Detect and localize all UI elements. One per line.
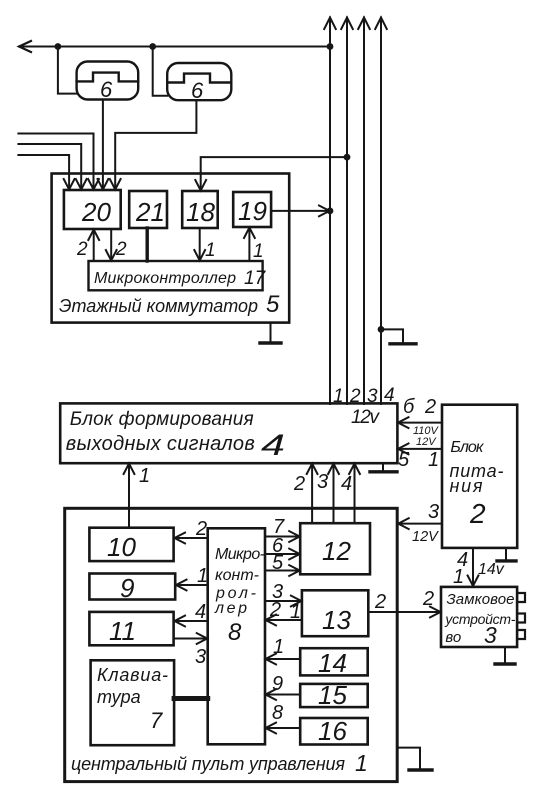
svg-text:11: 11 — [109, 616, 136, 646]
wire power to lock device (arrow down) labels 4 1 14v — [453, 548, 505, 588]
svg-text:19: 19 — [238, 196, 267, 226]
wire MK8 to 12 line 7 (arrow right) — [265, 516, 300, 542]
block 20 — [64, 190, 121, 229]
svg-text:1: 1 — [139, 465, 150, 487]
block 19 — [233, 192, 271, 227]
svg-text:6: 6 — [191, 78, 204, 103]
ground from block 1 right edge — [397, 748, 432, 770]
svg-text:лер: лер — [214, 600, 247, 617]
svg-text:3: 3 — [428, 501, 439, 523]
block 16 — [300, 716, 368, 746]
svg-text:2: 2 — [424, 396, 436, 418]
wire block 11 to MK8 (arrow right) label 3 — [174, 633, 208, 668]
svg-text:Микроконтроллер: Микроконтроллер — [94, 270, 236, 287]
wire block 21 to MK17 (thick) — [145, 228, 148, 261]
wire from dot B to right intercom — [153, 47, 168, 96]
wire top bus with left arrowhead — [19, 41, 330, 52]
wire 14 to MK8 (arrow left) label 1 — [266, 636, 301, 664]
node junction dot A — [55, 43, 62, 50]
wire input line C — [18, 155, 74, 190]
wire input line A — [18, 134, 99, 190]
node junction dot B — [149, 43, 156, 50]
wire block 13 to lock device (arrow right) labels 2 2 — [368, 588, 440, 617]
wire power 1 to block 4 (arrow left) labels 5 1 — [398, 444, 442, 472]
svg-text:тура: тура — [97, 687, 141, 707]
svg-text:14: 14 — [318, 648, 347, 678]
svg-text:Клавиа-: Клавиа- — [97, 665, 168, 685]
label Этажный коммутатор 5 — [59, 291, 280, 318]
svg-text:1: 1 — [453, 566, 464, 588]
intercom handset unit 6 (left) — [77, 62, 139, 103]
svg-text:2: 2 — [293, 473, 305, 495]
trunk line 2 (arrow up) — [341, 18, 353, 405]
svg-text:10: 10 — [107, 532, 136, 562]
svg-text:Этажный коммутатор: Этажный коммутатор — [59, 296, 258, 316]
block 21 — [129, 191, 167, 228]
ground below block 5 — [260, 323, 281, 343]
block 18 — [182, 191, 218, 228]
svg-text:8: 8 — [228, 619, 242, 646]
svg-text:1: 1 — [290, 601, 301, 623]
wire block 19 to trunk line 1 (arrow right) — [271, 206, 333, 217]
block 10 — [89, 528, 173, 562]
labels 1 2 3 4 above block 4 — [333, 385, 395, 407]
svg-text:1: 1 — [355, 750, 368, 776]
svg-text:3: 3 — [484, 622, 497, 648]
ground below lock device — [495, 647, 515, 664]
svg-text:конт-: конт- — [215, 567, 259, 584]
svg-text:12: 12 — [322, 536, 351, 566]
svg-text:5: 5 — [272, 552, 284, 574]
wire left intercom to block 20 (arrow down) — [98, 100, 109, 190]
microcontroller 8 box — [208, 528, 265, 744]
svg-text:2: 2 — [115, 239, 127, 260]
wire block 1 to block 4 (arrow up) label 1 — [124, 464, 151, 528]
wire 12 to block 4 line 2 (arrow up) — [293, 464, 318, 524]
wire MK8 to block 10 (arrow left) label 2 — [175, 518, 208, 543]
svg-text:устройст-: устройст- — [444, 611, 515, 627]
block 12 — [300, 523, 370, 574]
ground from trunk line 4 — [378, 326, 416, 344]
svg-text:4: 4 — [195, 601, 206, 623]
wire right intercom to block 20 (arrow down) — [110, 100, 197, 189]
svg-text:16: 16 — [318, 716, 347, 746]
svg-text:3: 3 — [195, 646, 206, 668]
wire MK17 to block 19 (arrow up) label 1 — [244, 228, 264, 263]
svg-text:5: 5 — [398, 449, 410, 471]
wire power 2 to block 4 (110V arrow left) labels б 2 — [398, 396, 442, 448]
svg-text:12v: 12v — [351, 407, 381, 428]
svg-text:1: 1 — [273, 636, 284, 658]
ground below power block 2 — [497, 548, 516, 561]
wire MK8 to block 11 (arrow left) label 4 — [175, 601, 208, 626]
wire 16 to MK8 (arrow left) label 8 — [266, 702, 301, 733]
block 13 — [302, 590, 368, 636]
svg-text:2: 2 — [195, 518, 207, 540]
trunk line 1 (arrow up) — [324, 18, 336, 405]
wire MK8 to 13 line 3 (arrow right) — [265, 581, 301, 606]
svg-text:2: 2 — [269, 599, 281, 621]
wire block 20 to MK17 (arrow down) label 2 — [106, 229, 127, 261]
wire MK8 to block 9 (arrow left) label 1 — [176, 565, 208, 590]
svg-text:20: 20 — [81, 197, 111, 227]
node junction dot on trunk line 1 (top) — [327, 43, 334, 50]
svg-text:12V: 12V — [416, 436, 437, 448]
wire 15 to MK8 (arrow left) label 9 — [266, 673, 301, 700]
svg-text:во: во — [445, 629, 461, 646]
svg-text:2: 2 — [76, 239, 88, 260]
intercom handset unit 6 (right) — [167, 63, 231, 103]
block 15 — [300, 680, 368, 710]
svg-text:центральный пульт управления: центральный пульт управления — [71, 754, 345, 774]
svg-text:12V: 12V — [412, 529, 439, 545]
svg-text:4: 4 — [261, 429, 285, 462]
svg-text:9: 9 — [120, 573, 134, 603]
microcontroller 17 box — [89, 261, 267, 290]
wire block 18 to MK17 (arrow down) label 1 — [194, 228, 215, 261]
ground below block 4 — [370, 463, 397, 472]
svg-text:2: 2 — [374, 591, 386, 613]
svg-text:2: 2 — [422, 588, 434, 610]
svg-text:ния: ния — [450, 476, 483, 496]
block 14 — [300, 648, 368, 678]
svg-text:б: б — [403, 396, 415, 418]
svg-text:2: 2 — [469, 498, 486, 529]
svg-text:Замковое: Замковое — [447, 591, 515, 608]
svg-text:5: 5 — [266, 291, 280, 318]
svg-text:14v: 14v — [478, 561, 505, 578]
central control console block 1 box — [65, 508, 398, 781]
block 11 — [89, 612, 173, 646]
svg-text:выходных сигналов: выходных сигналов — [66, 433, 255, 455]
svg-text:7: 7 — [150, 708, 163, 733]
trunk line 4 (arrow up) — [375, 18, 387, 405]
svg-text:21: 21 — [135, 197, 165, 227]
block 9 — [89, 573, 175, 603]
wire MK8 to 12 line 6 (arrow right) — [265, 535, 300, 559]
wire from dot A to left intercom — [58, 47, 77, 94]
svg-text:1: 1 — [205, 240, 216, 261]
wire trunk line 2 to block 18 (arrow down) — [195, 154, 350, 191]
wire MK17 to block 20 (arrow up) label 2 — [76, 230, 99, 262]
svg-text:Блок: Блок — [450, 439, 484, 456]
svg-text:9: 9 — [272, 673, 283, 695]
wire 12 to block 4 line 3 (arrow up) — [317, 464, 339, 524]
wire 12 to block 4 line 4 (arrow up) — [341, 464, 360, 524]
svg-text:3: 3 — [317, 471, 328, 493]
svg-text:4: 4 — [341, 473, 352, 495]
keyboard block 7 — [91, 660, 175, 745]
svg-text:1: 1 — [253, 241, 264, 262]
trunk line 3 (arrow up) — [358, 18, 370, 405]
wire keyboard 7 to MK8 (thick) — [174, 696, 208, 701]
svg-text:15: 15 — [318, 680, 347, 710]
svg-text:17: 17 — [244, 268, 267, 289]
label центральный пульт управления 1 — [71, 750, 368, 776]
wire MK8 to 12 line 5 (arrow right) — [265, 552, 300, 576]
floor commutator block 5 box — [52, 174, 290, 323]
lock device block 3 — [441, 587, 525, 648]
svg-text:1: 1 — [197, 565, 208, 587]
output signal former block 4 — [60, 403, 397, 463]
svg-text:1: 1 — [428, 449, 439, 471]
svg-text:Блок формирования: Блок формирования — [70, 409, 254, 430]
svg-text:Микро-: Микро- — [215, 546, 265, 563]
wire power 3 12V to block 1 (arrow left) — [398, 501, 442, 545]
power supply block 2 — [442, 405, 517, 548]
wire input line B — [18, 144, 86, 190]
svg-text:13: 13 — [322, 605, 351, 635]
svg-text:6: 6 — [100, 77, 113, 102]
svg-text:18: 18 — [186, 197, 215, 227]
wire 13 to MK8 line 2 (arrow left) labels 2 1 — [266, 599, 302, 625]
svg-text:8: 8 — [272, 702, 283, 724]
